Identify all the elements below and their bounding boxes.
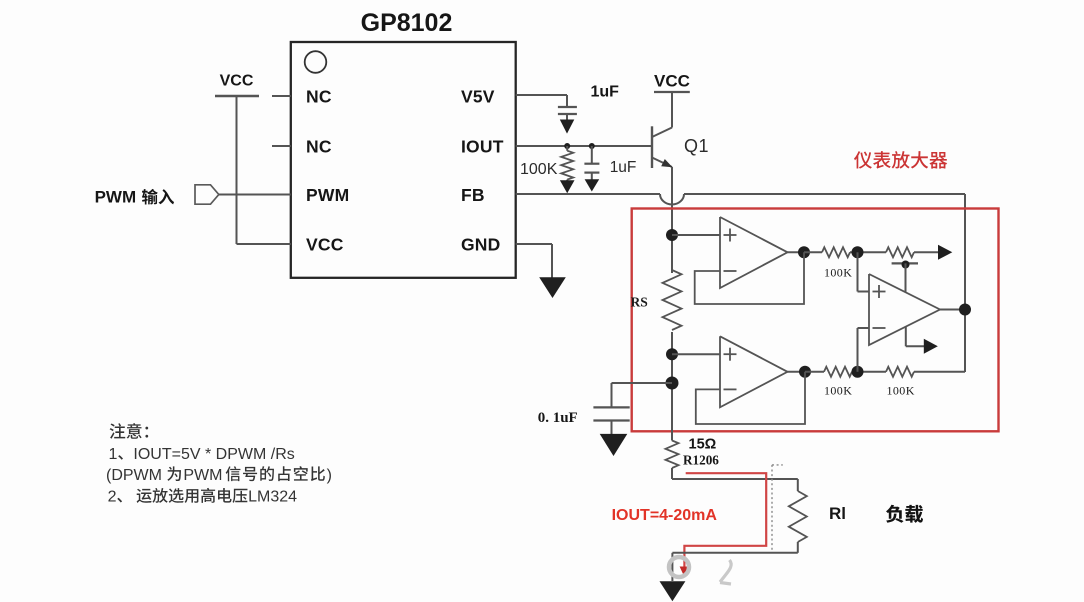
svg-text:FB: FB xyxy=(461,185,485,205)
svg-text:GND: GND xyxy=(461,235,501,255)
svg-text:15Ω: 15Ω xyxy=(689,437,717,453)
svg-text:PWM: PWM xyxy=(183,467,222,484)
svg-text:PWM: PWM xyxy=(306,185,349,205)
svg-text:100K: 100K xyxy=(824,266,852,280)
svg-text:LM324: LM324 xyxy=(248,489,297,506)
svg-text:IOUT=4-20mA: IOUT=4-20mA xyxy=(612,507,718,524)
svg-text:1: 1 xyxy=(109,446,118,463)
svg-text:1uF: 1uF xyxy=(591,84,620,101)
svg-text:IOUT=5V * DPWM /Rs: IOUT=5V * DPWM /Rs xyxy=(133,446,294,463)
svg-text:VCC: VCC xyxy=(220,72,254,89)
svg-text:100K: 100K xyxy=(520,161,558,178)
svg-text:VCC: VCC xyxy=(654,72,690,91)
svg-text:2: 2 xyxy=(108,489,117,506)
svg-text:Q1: Q1 xyxy=(684,136,709,156)
svg-text:Rl: Rl xyxy=(829,504,846,523)
svg-text:VCC: VCC xyxy=(306,235,344,255)
svg-text:100K: 100K xyxy=(824,384,852,398)
svg-text:0. 1uF: 0. 1uF xyxy=(538,410,578,426)
svg-text:RS: RS xyxy=(631,295,648,310)
svg-text:NC: NC xyxy=(306,137,332,157)
svg-text:(DPWM: (DPWM xyxy=(106,467,162,484)
svg-text:R1206: R1206 xyxy=(683,453,719,468)
svg-text:GP8102: GP8102 xyxy=(361,9,453,37)
svg-text:): ) xyxy=(327,467,332,484)
svg-text:PWM: PWM xyxy=(95,188,137,207)
svg-text:NC: NC xyxy=(306,87,332,107)
svg-text:IOUT: IOUT xyxy=(461,137,504,157)
svg-text:V5V: V5V xyxy=(461,87,495,107)
svg-text:1uF: 1uF xyxy=(610,159,637,176)
svg-text:100K: 100K xyxy=(887,384,915,398)
